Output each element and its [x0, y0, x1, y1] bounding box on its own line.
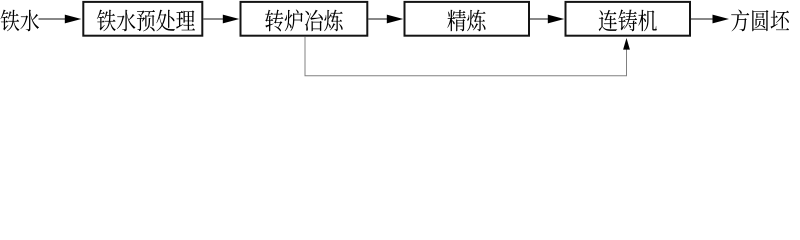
text 铁水预处理 inside box [97, 10, 195, 32]
arrow from 铁水预处理 to 转炉冶炼 [203, 15, 239, 24]
text 精炼 inside box [447, 10, 485, 32]
process box 连铸机 (continuous caster) [566, 2, 691, 36]
process box 精炼 (refining) [405, 2, 530, 36]
text label 方圆坯 (square/round billet output) [731, 10, 789, 32]
arrow from 连铸机 to output 方圆坯 [691, 15, 729, 24]
arrowhead up into bottom of 连铸机 box [623, 38, 630, 50]
text 转炉冶炼 inside box [265, 10, 342, 32]
arrow from 精炼 to 连铸机 [530, 15, 564, 24]
process box 转炉冶炼 (converter smelting) [241, 2, 368, 36]
text 连铸机 inside box [599, 10, 657, 32]
arrow from 铁水 to 铁水预处理 box [39, 15, 82, 24]
process box 铁水预处理 (hot metal pretreatment) [83, 2, 202, 36]
arrow from 转炉冶炼 to 精炼 [368, 15, 403, 24]
bypass wire from bottom of 转炉冶炼 down, right, and up to bottom of 连铸机 [305, 37, 627, 76]
text label 铁水 (hot metal input) [0, 10, 39, 32]
